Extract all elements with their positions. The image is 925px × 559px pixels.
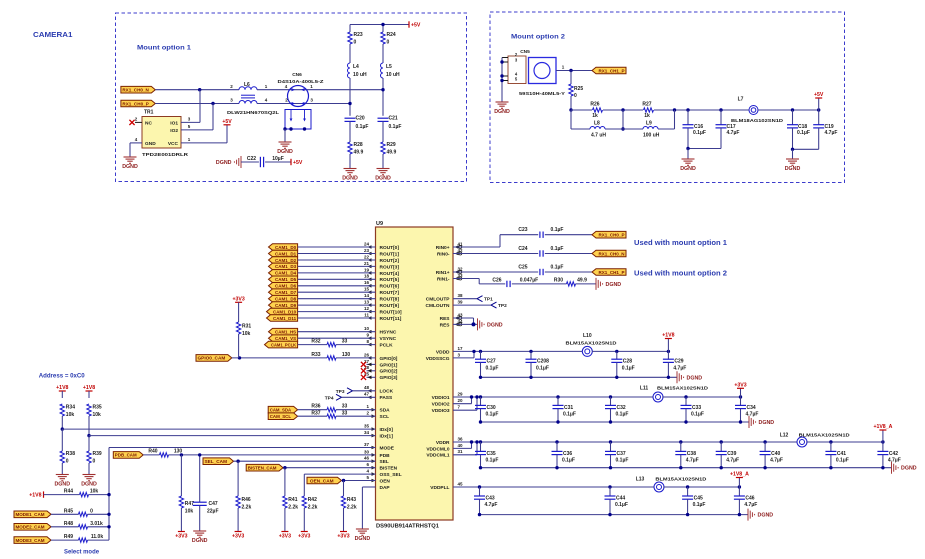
U9 left pin 6 BISTEN <box>366 462 397 472</box>
resistor R42 2.2k <box>302 496 318 511</box>
svg-text:CAM1_D7: CAM1_D7 <box>275 290 296 295</box>
svg-text:0.1µF: 0.1µF <box>693 130 706 136</box>
wire <box>382 44 384 63</box>
wire <box>570 110 572 129</box>
wire <box>88 391 90 398</box>
resistor R25 0 <box>569 84 584 99</box>
power +5V <box>409 21 421 28</box>
svg-text:DGND: DGND <box>342 176 358 182</box>
svg-text:CAM1_D3: CAM1_D3 <box>275 264 296 269</box>
junction <box>236 460 239 463</box>
wire <box>212 104 214 130</box>
wire <box>792 110 794 125</box>
svg-text:R36: R36 <box>311 404 320 410</box>
connector CN5 59S10H-40ML5-Y <box>508 49 566 97</box>
wire <box>199 90 201 123</box>
svg-text:CAM1_VS: CAM1_VS <box>275 336 296 341</box>
wire <box>576 283 597 285</box>
ground DGND <box>494 102 510 115</box>
port CAM_SDA <box>268 406 297 413</box>
no-connect X <box>129 120 134 125</box>
svg-text:R33: R33 <box>311 352 320 358</box>
svg-text:0.1µF: 0.1µF <box>389 124 402 130</box>
ground DGND <box>277 142 293 155</box>
svg-text:4.7µF: 4.7µF <box>727 130 740 136</box>
inductor L9 100uH <box>643 121 660 139</box>
svg-text:CAM1_D1: CAM1_D1 <box>275 251 296 256</box>
junction <box>791 108 821 111</box>
svg-text:VSYNC: VSYNC <box>380 336 397 342</box>
wire <box>298 278 376 280</box>
svg-text:VDDD: VDDD <box>436 349 450 355</box>
svg-text:CAM_SCL: CAM_SCL <box>270 414 292 419</box>
svg-text:C20: C20 <box>356 116 365 122</box>
svg-text:MODE1_CAM: MODE1_CAM <box>16 512 45 517</box>
svg-text:37: 37 <box>364 442 370 447</box>
svg-text:0.1µF: 0.1µF <box>616 458 629 464</box>
junction <box>198 88 201 91</box>
wire <box>530 362 532 377</box>
svg-text:VDDIO2: VDDIO2 <box>432 402 450 408</box>
svg-text:C43: C43 <box>486 495 495 501</box>
junction <box>180 453 183 456</box>
resistor R35 10k <box>87 404 102 418</box>
svg-text:13: 13 <box>364 300 370 305</box>
svg-text:DGND: DGND <box>606 282 622 288</box>
wire <box>129 143 131 157</box>
svg-text:46: 46 <box>364 456 370 461</box>
U9 left pin 1 SDA <box>366 404 390 414</box>
wire rail <box>662 396 740 398</box>
svg-text:R49: R49 <box>64 534 73 540</box>
svg-text:+1V8_A: +1V8_A <box>873 424 892 430</box>
capacitor C36 0.1µF <box>552 451 575 464</box>
power +5V <box>291 159 303 166</box>
port GPIO0_CAM <box>196 355 232 362</box>
junction <box>621 127 624 130</box>
wire <box>298 337 376 339</box>
wire rail bottom <box>481 376 678 378</box>
svg-text:RX1_CH0_P: RX1_CH0_P <box>599 233 625 238</box>
wire RIN1+ <box>453 271 538 273</box>
test point TP2 <box>491 302 507 309</box>
wire <box>818 110 820 125</box>
wire RIN0- <box>453 253 538 255</box>
wire <box>792 128 794 149</box>
svg-text:DGND: DGND <box>192 538 208 544</box>
no-connect X GPIO[3] <box>361 375 366 380</box>
svg-text:DGND: DGND <box>216 160 232 166</box>
wire <box>382 121 384 142</box>
wire <box>298 415 327 417</box>
resistor R30 49.9 <box>554 277 587 286</box>
wire <box>557 409 559 422</box>
svg-text:+3V3: +3V3 <box>279 533 291 539</box>
wire <box>298 331 376 333</box>
wire <box>298 253 376 255</box>
U9 left pin 37 MODE <box>364 442 395 452</box>
svg-text:VDDCML0: VDDCML0 <box>426 446 450 452</box>
wire <box>616 362 618 377</box>
svg-text:0.1µF: 0.1µF <box>356 124 369 130</box>
wire mode bus <box>108 448 110 541</box>
svg-text:CMLOUTP: CMLOUTP <box>426 297 451 303</box>
svg-text:U9: U9 <box>376 221 383 227</box>
svg-text:59S10H-40ML5-Y: 59S10H-40ML5-Y <box>519 91 566 97</box>
U9 left pin 30 PDB <box>364 449 390 459</box>
power +3V3 <box>232 297 244 303</box>
wire rail <box>806 441 883 443</box>
wire <box>680 455 682 468</box>
wire VDDD pin17 <box>453 350 481 352</box>
svg-text:0: 0 <box>90 508 93 514</box>
svg-text:CAM1_D4: CAM1_D4 <box>275 271 296 276</box>
capacitor C35 0.1µF <box>475 451 498 464</box>
junction <box>500 60 503 82</box>
svg-text:49.9: 49.9 <box>577 277 587 283</box>
inductor L4 10uH <box>348 63 368 78</box>
svg-text:+1V8: +1V8 <box>29 493 41 499</box>
esd diode TR1 TPD2E001DRLR <box>142 110 189 159</box>
inductor L5 10uH <box>381 63 401 78</box>
wire <box>51 526 79 528</box>
svg-text:R34: R34 <box>66 405 75 411</box>
svg-text:IDx[0]: IDx[0] <box>380 427 394 433</box>
label Mount option 1 <box>137 45 191 52</box>
wire <box>610 409 612 422</box>
wire <box>556 442 558 451</box>
U9 right pin 45 VDDPLL <box>430 481 463 491</box>
svg-text:4.7 uH: 4.7 uH <box>591 133 606 139</box>
svg-text:Select mode: Select mode <box>64 549 100 556</box>
port BISTEN_CAM <box>246 464 283 471</box>
svg-text:DGND: DGND <box>375 176 391 182</box>
svg-text:VCC: VCC <box>168 141 179 147</box>
wire <box>143 454 159 456</box>
U9 left pin 24 ROUT[0] <box>364 241 399 251</box>
wire <box>298 311 376 313</box>
capacitor C34 4.7µF <box>735 405 758 418</box>
svg-text:R25: R25 <box>574 86 583 92</box>
wire <box>303 508 305 532</box>
junction <box>569 108 572 111</box>
svg-text:22: 22 <box>364 254 370 259</box>
capacitor C26 0.047uF <box>492 277 538 287</box>
svg-text:DGND: DGND <box>494 109 510 115</box>
power +3V3 <box>232 532 244 540</box>
port CAM1_D6 <box>269 283 298 290</box>
svg-text:C21: C21 <box>389 116 398 122</box>
svg-text:100 uH: 100 uH <box>643 133 660 139</box>
wire <box>238 302 240 322</box>
inductor L8 4.7uH <box>590 121 606 139</box>
svg-text:18: 18 <box>364 274 370 279</box>
capacitor C29 4.7µF <box>663 359 686 372</box>
wire <box>609 499 611 514</box>
wire <box>284 468 286 496</box>
svg-text:10: 10 <box>364 326 370 331</box>
wire <box>298 304 376 306</box>
svg-text:RES: RES <box>440 322 451 328</box>
svg-text:CAM1_D8: CAM1_D8 <box>275 297 296 302</box>
wire <box>232 357 327 359</box>
svg-text:R26: R26 <box>590 101 599 107</box>
svg-text:SEL: SEL <box>380 459 389 465</box>
svg-text:C45: C45 <box>694 495 703 501</box>
svg-text:0.1µF: 0.1µF <box>562 458 575 464</box>
svg-text:HSYNC: HSYNC <box>380 330 397 336</box>
svg-text:R46: R46 <box>242 497 251 503</box>
junction <box>342 479 345 482</box>
svg-text:24: 24 <box>364 241 370 246</box>
U9 left pin 23 ROUT[1] <box>364 248 399 258</box>
svg-text:L8: L8 <box>594 121 600 127</box>
junction <box>621 108 624 111</box>
svg-text:DGND: DGND <box>680 166 696 172</box>
svg-text:CAM1_D9: CAM1_D9 <box>275 303 296 308</box>
svg-text:0: 0 <box>66 459 69 465</box>
wire <box>556 455 558 468</box>
svg-text:CAM_SDA: CAM_SDA <box>270 408 292 413</box>
U9 right pin 44 RES <box>440 319 463 329</box>
svg-text:10k: 10k <box>93 412 102 418</box>
svg-text:C25: C25 <box>518 264 527 270</box>
resistor R32 33 <box>311 339 347 347</box>
power +3V3 <box>734 383 746 389</box>
U9 left pin 16 ROUT[6] <box>364 280 399 290</box>
svg-text:L11: L11 <box>640 385 649 391</box>
svg-text:1k: 1k <box>592 113 598 119</box>
wire <box>685 409 687 422</box>
junction <box>478 513 741 516</box>
port MODE2_CAM <box>14 524 51 531</box>
wire <box>674 110 676 129</box>
ground DGND <box>680 159 696 172</box>
resistor R43 2.2k <box>341 496 357 511</box>
U9 left pin 18 ROUT[5] <box>364 274 399 284</box>
svg-text:C35: C35 <box>487 451 496 457</box>
svg-text:0.1µF: 0.1µF <box>797 130 810 136</box>
svg-text:Mount option 2: Mount option 2 <box>511 34 565 41</box>
svg-text:30: 30 <box>364 449 370 454</box>
svg-text:RX1_CH0_P: RX1_CH0_P <box>122 101 148 106</box>
resistor R49 11.0k <box>64 534 103 542</box>
U9 left pin 5 OEN <box>366 475 390 485</box>
wire <box>382 78 384 116</box>
wire RES43 <box>453 318 474 324</box>
wire CMLOUTP <box>453 298 477 300</box>
wire <box>570 96 572 110</box>
svg-text:L7: L7 <box>738 97 744 103</box>
wire <box>61 463 63 475</box>
CN5 pins 2 3 4 5 <box>502 52 518 82</box>
capacitor C41 0.1µF <box>825 451 848 464</box>
capacitor C23 0.1uF <box>518 227 563 238</box>
svg-text:BLM15AX102SN1D: BLM15AX102SN1D <box>566 341 618 347</box>
ground DGND <box>81 475 97 488</box>
port MODE1_CAM <box>14 511 51 518</box>
wire <box>61 391 63 398</box>
svg-text:DGND: DGND <box>759 420 775 426</box>
svg-text:DLW21HN670SQ2L: DLW21HN670SQ2L <box>227 110 279 116</box>
capacitor C30 0.1µF <box>475 405 498 418</box>
wire <box>818 98 820 110</box>
resistor R40 130 <box>148 448 182 457</box>
U9 right pin 7 VDDIO3 <box>432 405 461 415</box>
wire <box>480 409 482 422</box>
svg-text:RX1_CH0_N: RX1_CH0_N <box>122 88 149 93</box>
capacitor C45 0.1µF <box>682 495 705 508</box>
wire <box>793 148 819 150</box>
port CAM1_PCLK <box>265 341 298 348</box>
wire <box>740 388 742 397</box>
wire <box>298 291 376 293</box>
junction <box>686 147 689 150</box>
svg-text:DGND: DGND <box>81 482 97 488</box>
wire <box>342 396 376 398</box>
svg-text:TP4: TP4 <box>325 395 334 401</box>
wire <box>685 397 687 405</box>
svg-text:4.7µF: 4.7µF <box>770 458 783 464</box>
ground DGND sideways <box>596 278 621 290</box>
svg-text:34: 34 <box>364 430 370 435</box>
svg-text:19: 19 <box>364 267 370 272</box>
svg-text:R40: R40 <box>148 448 157 454</box>
svg-text:ROUT[9]: ROUT[9] <box>380 303 400 309</box>
capacitor C22 10uF <box>247 156 284 167</box>
svg-text:R31: R31 <box>242 324 251 330</box>
svg-text:4.7µF: 4.7µF <box>888 458 901 464</box>
wire <box>298 344 327 346</box>
wire <box>571 128 623 130</box>
capacitor C46 4.7µF <box>734 495 757 508</box>
wire <box>818 128 820 149</box>
svg-text:TP3: TP3 <box>336 389 345 395</box>
svg-text:39: 39 <box>458 300 464 305</box>
capacitor C37 0.1µF <box>605 451 628 464</box>
svg-text:11.0k: 11.0k <box>91 534 103 540</box>
svg-text:CAM1_PCLK: CAM1_PCLK <box>271 342 297 347</box>
wire <box>622 110 624 129</box>
pin 2 NC stub <box>135 116 142 122</box>
resistor R41 2.2k <box>283 496 299 511</box>
wire rail <box>481 396 654 398</box>
wire <box>382 25 384 33</box>
svg-text:R24: R24 <box>387 32 396 38</box>
svg-text:36: 36 <box>458 436 464 441</box>
wire <box>738 487 740 496</box>
resistor R46 2.2k <box>236 496 252 511</box>
svg-text:C32: C32 <box>617 405 626 411</box>
svg-text:22µF: 22µF <box>207 509 219 515</box>
wire <box>169 454 376 456</box>
svg-text:4.7µF: 4.7µF <box>746 412 759 418</box>
resistor R44 10k <box>64 489 98 497</box>
U9 left pin 9 VSYNC <box>366 333 396 343</box>
connector CN6 D4S10A-400L5-Z <box>278 72 324 107</box>
power +1V8 <box>29 491 43 498</box>
junction <box>479 350 670 353</box>
svg-text:20: 20 <box>458 398 464 403</box>
capacitor C43 4.7µF <box>474 495 497 508</box>
power +3V3 <box>337 532 349 540</box>
svg-text:C31: C31 <box>564 405 573 411</box>
resistor R27 1k <box>642 101 653 119</box>
wire <box>571 109 592 111</box>
wire <box>687 128 689 149</box>
svg-text:10µF: 10µF <box>272 156 284 162</box>
svg-text:R32: R32 <box>311 339 320 345</box>
svg-text:C22: C22 <box>247 156 256 162</box>
ground DGND sideways <box>749 416 774 428</box>
svg-text:38: 38 <box>458 293 464 298</box>
svg-text:0.1µF: 0.1µF <box>563 412 576 418</box>
port SEL_CAM <box>203 458 234 465</box>
title text CAMERA1 <box>33 30 73 39</box>
U9 left pin 27 GPIO[1] <box>364 359 398 369</box>
capacitor C20 0.1uF <box>345 116 369 131</box>
svg-text:2.2k: 2.2k <box>347 505 357 511</box>
svg-text:L6: L6 <box>244 82 250 88</box>
svg-text:L4: L4 <box>353 64 359 70</box>
wire RES44 <box>453 323 478 325</box>
svg-text:33: 33 <box>342 404 348 410</box>
svg-text:DGND: DGND <box>122 164 138 170</box>
svg-text:CAM1_D0: CAM1_D0 <box>275 245 296 250</box>
ground DGND <box>122 157 138 170</box>
wire <box>764 442 766 451</box>
svg-text:R28: R28 <box>354 142 363 148</box>
svg-text:PASS: PASS <box>380 395 394 401</box>
wire <box>740 397 742 405</box>
junction <box>348 102 351 105</box>
svg-text:+5V: +5V <box>222 119 232 125</box>
wire <box>720 110 722 125</box>
wire <box>257 89 383 91</box>
svg-text:TP2: TP2 <box>498 303 507 309</box>
wire <box>298 272 376 274</box>
svg-text:0.1µF: 0.1µF <box>615 502 628 508</box>
svg-text:ROUT[3]: ROUT[3] <box>380 264 400 270</box>
wire <box>610 442 612 451</box>
wire <box>199 505 201 531</box>
svg-text:0.1µF: 0.1µF <box>551 264 564 270</box>
wire <box>720 455 722 468</box>
svg-text:R27: R27 <box>642 101 651 107</box>
wire <box>241 161 259 163</box>
wire <box>382 154 384 169</box>
svg-text:NC: NC <box>145 120 152 126</box>
wire <box>882 455 884 468</box>
svg-text:R29: R29 <box>387 142 396 148</box>
svg-text:CAMERA1: CAMERA1 <box>33 30 73 39</box>
svg-text:BLM15AX102SN1D: BLM15AX102SN1D <box>655 476 707 482</box>
svg-text:GPIO0_CAM: GPIO0_CAM <box>198 356 226 361</box>
svg-text:PCLK: PCLK <box>380 343 394 349</box>
svg-text:L9: L9 <box>646 121 652 127</box>
svg-text:C33: C33 <box>692 405 701 411</box>
port RX1_CH0_N <box>121 86 155 93</box>
svg-text:1k: 1k <box>644 113 650 119</box>
wire <box>680 442 682 451</box>
wire <box>88 416 90 436</box>
note Used with mount option 1 <box>634 240 727 247</box>
svg-text:ROUT[6]: ROUT[6] <box>380 284 400 290</box>
svg-text:33: 33 <box>342 339 348 345</box>
wire <box>545 253 592 255</box>
svg-text:DGND: DGND <box>54 482 70 488</box>
junction <box>211 102 214 105</box>
